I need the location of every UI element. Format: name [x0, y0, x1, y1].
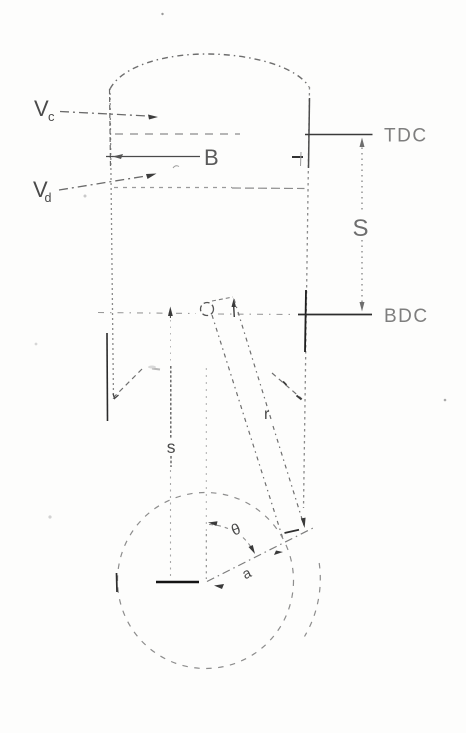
svg-text:B: B	[204, 145, 219, 170]
Vc arrowhead	[148, 115, 158, 120]
faint smudge lower left	[48, 515, 51, 518]
svg-text:S: S	[353, 215, 369, 242]
left cylinder wall	[110, 88, 114, 399]
faint smudge left	[84, 195, 87, 198]
right skirt dark marks	[283, 382, 302, 400]
S dimension line upper	[361, 142, 363, 212]
small tick near right wall	[300, 152, 303, 166]
S arrow up	[360, 138, 365, 148]
Vc leader line	[60, 112, 148, 117]
Vd arrowhead	[146, 174, 157, 180]
faint smudge mid left	[35, 343, 38, 346]
B dimension line	[106, 156, 200, 158]
svg-text:d: d	[45, 191, 52, 205]
r dimension top arrowhead	[232, 298, 237, 307]
outer arc lower right	[305, 563, 321, 637]
faint dash near s line top	[152, 369, 160, 370]
r leader from pin	[212, 297, 233, 301]
cylinder axis line	[205, 368, 207, 532]
s dimension line below label	[170, 456, 172, 467]
BDC level dash-dot line left of pin	[98, 313, 196, 314]
crank radius line	[207, 527, 316, 582]
theta arc lower	[243, 538, 254, 553]
s top arrow	[168, 307, 173, 317]
left skirt corner dark	[113, 394, 119, 399]
S arrow down	[360, 302, 365, 312]
s dimension line lower faint	[170, 470, 172, 577]
r dimension line	[234, 299, 271, 419]
faint smudge bottom	[148, 366, 156, 369]
a arrowhead toward pin	[274, 551, 283, 556]
svg-text:TDC: TDC	[384, 126, 428, 147]
crank circle dark left segment	[116, 573, 119, 592]
a arrowhead toward center	[214, 584, 224, 589]
s dimension line dark middle	[170, 366, 172, 439]
left skirt diagonal	[114, 369, 142, 397]
left wall dark upper segment	[110, 89, 111, 168]
connecting rod left edge	[212, 315, 283, 539]
r bottom arrowhead	[301, 518, 306, 528]
svg-text:r: r	[264, 406, 270, 423]
theta arrow left	[208, 521, 218, 526]
svg-text:s: s	[167, 437, 176, 457]
svg-text:c: c	[48, 109, 55, 124]
right wall dark BDC segment	[305, 290, 306, 352]
wrist pin circle	[201, 303, 214, 316]
crank center horizontal bar	[156, 581, 199, 584]
theta arrow lower	[249, 545, 256, 554]
theta arc upper	[209, 525, 228, 529]
crank circle	[118, 493, 294, 669]
cylinder head dome	[110, 54, 309, 89]
svg-text:V: V	[34, 96, 49, 121]
svg-text:BDC: BDC	[384, 306, 429, 327]
axis line above crank center	[205, 534, 207, 579]
right cylinder wall	[304, 87, 310, 508]
Vd leader line	[59, 176, 146, 190]
TDC dashed piston line	[115, 133, 240, 135]
right skirt diagonal	[272, 373, 302, 399]
crank line dark segment near pin	[285, 530, 300, 533]
speck right	[444, 399, 447, 402]
S dimension line lower	[361, 240, 363, 306]
BDC tick line	[298, 314, 372, 316]
B right wall tick	[292, 156, 303, 158]
B arrowhead left	[113, 154, 124, 159]
speck top	[161, 13, 163, 15]
piston bottom dashed line	[114, 187, 232, 189]
BDC level dash-dot line right of pin	[218, 313, 295, 316]
s dimension line upper faint	[170, 320, 172, 364]
TDC tick line	[305, 134, 373, 136]
tiny speck a	[173, 166, 179, 168]
right wall darker upper segment	[309, 98, 310, 168]
left wall dark solid segment	[106, 333, 109, 421]
